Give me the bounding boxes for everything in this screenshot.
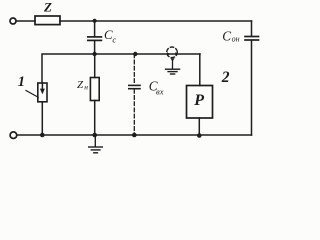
input terminal (top left)	[10, 18, 16, 24]
shield feedthrough (dashed circle)	[167, 47, 178, 58]
svg-text:Z: Z	[77, 79, 84, 91]
shield arrow to ground	[170, 58, 174, 61]
wire: top terminal to resistor Z	[16, 20, 35, 22]
output terminal (bottom left)	[10, 132, 17, 139]
wire: middle horizontal	[42, 54, 200, 83]
wire: Zn branch upper	[94, 54, 96, 78]
shield ground	[166, 69, 180, 74]
svg-text:Z: Z	[43, 0, 52, 14]
svg-text:Р: Р	[193, 92, 204, 109]
device P (box)	[187, 86, 213, 119]
svg-text:н: н	[84, 83, 88, 92]
node: top of Cc branch	[93, 19, 97, 23]
surge arrester 1 (box)	[38, 83, 47, 102]
svg-text:он: он	[232, 35, 240, 44]
capacitor Cvx	[129, 85, 140, 88]
surge arrester 1 arrow	[40, 83, 45, 94]
capacitor Con	[245, 37, 259, 41]
node: device P bottom	[197, 133, 202, 138]
wire: Cc branch lower	[94, 41, 96, 54]
node: Cvx bottom	[132, 133, 137, 138]
wire: bottom horizontal	[17, 134, 252, 136]
wire: resistor Z to top-right corner	[60, 20, 252, 22]
leader line for label 1	[26, 91, 38, 98]
resistor Z	[35, 16, 60, 25]
node: Cvx top	[133, 52, 137, 56]
shield ground stub	[172, 60, 174, 69]
capacitor Cc	[88, 37, 102, 41]
ground (main, below Zn)	[89, 135, 103, 153]
node: Cc/Zn junction on middle wire	[92, 52, 96, 56]
wire: Zn branch lower	[94, 101, 96, 136]
arrowheads on wire in shield	[167, 52, 179, 55]
wire: device P to bottom	[198, 118, 200, 135]
svg-text:C: C	[222, 28, 231, 43]
load Zn (box)	[90, 78, 99, 101]
capacitor Cvx branch (dashed) upper	[133, 54, 135, 85]
capacitor Con (right branch upper wire)	[251, 21, 253, 36]
svg-text:2: 2	[221, 69, 230, 86]
node: Zn bottom	[92, 133, 97, 138]
svg-text:c: c	[112, 34, 116, 44]
wire: Cc branch upper	[94, 21, 96, 36]
svg-text:вх: вх	[156, 87, 164, 97]
svg-text:1: 1	[18, 74, 25, 90]
wire: arrester to bottom	[41, 102, 43, 135]
wire: right branch lower	[251, 41, 253, 136]
node: arrester bottom	[40, 133, 45, 138]
wire: corner down to device P	[199, 54, 201, 86]
capacitor Cvx branch (dashed) lower	[133, 90, 135, 136]
